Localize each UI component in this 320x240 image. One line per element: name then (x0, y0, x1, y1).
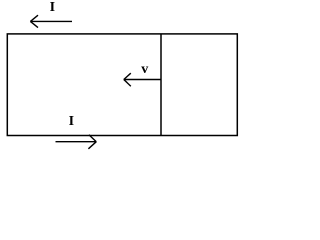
sliding rod (inner vertical conductor) (160, 34, 162, 136)
label I (top current) (50, 0, 55, 15)
svg-text:I: I (50, 0, 55, 15)
conducting rail loop (outer rectangle) (7, 34, 237, 136)
label I (bottom current) (69, 114, 74, 129)
current arrow I (top, pointing left) (30, 15, 72, 27)
svg-text:v: v (141, 62, 148, 77)
velocity arrow v (pointing left toward rod) (124, 73, 162, 86)
svg-text:I: I (69, 114, 74, 129)
current arrow I (bottom, pointing right) (56, 135, 97, 149)
label v (velocity) (141, 62, 148, 77)
